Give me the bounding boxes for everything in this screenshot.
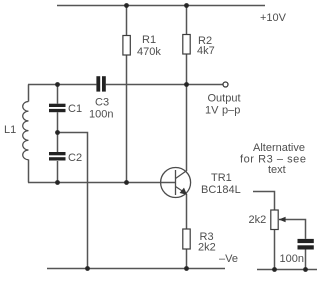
wire tank top left segment bbox=[28, 84, 96, 86]
svg-text:100n: 100n bbox=[280, 253, 304, 265]
svg-text:R1: R1 bbox=[142, 34, 156, 46]
svg-text:BC184L: BC184L bbox=[201, 184, 241, 196]
emitter arrowhead bbox=[180, 188, 187, 195]
wire L1 bottom lead bbox=[28, 160, 30, 183]
wire R1 column upper bbox=[126, 6, 128, 36]
wire alt wiper to cap bbox=[279, 220, 306, 239]
wire R2 column to collector bbox=[186, 54, 188, 171]
wiper arrowhead bbox=[279, 217, 286, 222]
wire alt bottom rail bbox=[257, 269, 317, 271]
wire base wire bbox=[28, 182, 176, 184]
svg-text:C3: C3 bbox=[95, 97, 109, 109]
wire alt top lead bbox=[253, 192, 275, 211]
svg-text:C2: C2 bbox=[68, 152, 82, 164]
transistor TR1 bbox=[161, 168, 191, 198]
wire emitter column to R3 bbox=[186, 194, 188, 229]
svg-text:100n: 100n bbox=[89, 109, 113, 121]
resistor R2 bbox=[183, 35, 190, 55]
node: alt pot / bottom rail bbox=[272, 267, 277, 272]
svg-text:text: text bbox=[268, 164, 286, 176]
node: C1 top bbox=[55, 82, 60, 87]
capacitor C2 bbox=[49, 152, 66, 161]
wire tap from C1/C2 junction to bottom rail bbox=[58, 133, 88, 269]
svg-text:Output: Output bbox=[208, 93, 241, 105]
wire alt pot bottom lead bbox=[274, 230, 276, 270]
capacitor 100n (alternative) bbox=[298, 239, 314, 250]
svg-text:C1: C1 bbox=[68, 103, 82, 115]
svg-text:Alternative: Alternative bbox=[253, 142, 305, 154]
wire R3 bottom lead bbox=[186, 249, 188, 269]
node: top rail / R2 bbox=[184, 3, 189, 8]
node: collector / output bbox=[184, 82, 189, 87]
output terminal bbox=[223, 82, 228, 87]
node: top rail / R1 bbox=[124, 3, 129, 8]
wire R1 column lower to base node bbox=[126, 55, 128, 183]
svg-text:p–p: p–p bbox=[222, 105, 240, 117]
inductor L1 bbox=[23, 102, 29, 160]
resistor R3 bbox=[183, 229, 190, 249]
node: C1/C2 junction bbox=[55, 130, 60, 135]
svg-text:2k2: 2k2 bbox=[249, 214, 267, 226]
node: alt cap / bottom rail bbox=[303, 267, 308, 272]
wire R2 column upper bbox=[186, 6, 188, 35]
wire C2 top lead bbox=[57, 133, 59, 153]
node: tap / bottom rail bbox=[85, 266, 90, 271]
wire C3 right to collector column bbox=[106, 84, 187, 86]
wire alt cap bottom lead bbox=[305, 250, 307, 270]
node: R3 / bottom rail bbox=[184, 266, 189, 271]
svg-text:+10V: +10V bbox=[260, 12, 287, 24]
svg-text:1V: 1V bbox=[205, 105, 219, 117]
capacitor C1 bbox=[49, 104, 66, 113]
svg-text:4k7: 4k7 bbox=[197, 45, 215, 57]
wire bottom rail -Ve bbox=[47, 268, 225, 270]
svg-text:L1: L1 bbox=[4, 124, 16, 136]
svg-text:–Ve: –Ve bbox=[219, 253, 238, 265]
wire C1 top lead bbox=[57, 85, 59, 104]
svg-text:TR1: TR1 bbox=[211, 172, 232, 184]
wire top rail +10V bbox=[57, 5, 265, 7]
wire L1 top lead bbox=[28, 85, 30, 102]
wire C1 bottom lead bbox=[57, 112, 59, 132]
potentiometer 2k2 (alternative R3) bbox=[271, 210, 278, 230]
capacitor C3 bbox=[96, 76, 105, 91]
wire output tap bbox=[187, 84, 223, 86]
node: C2 bottom / base wire bbox=[55, 180, 60, 185]
svg-text:470k: 470k bbox=[137, 46, 161, 58]
wire C2 bottom lead bbox=[57, 161, 59, 183]
node: R1 / base wire bbox=[124, 180, 129, 185]
svg-text:2k2: 2k2 bbox=[198, 242, 216, 254]
resistor R1 bbox=[123, 36, 130, 56]
